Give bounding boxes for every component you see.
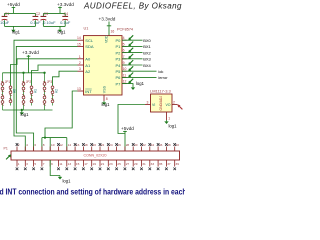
svg-text:A1: A1 [85,63,91,68]
svg-text:5: 5 [123,42,125,46]
svg-text:1: 1 [79,55,81,59]
wire top rail cap group 2 [43,12,65,14]
wire 5V input [118,105,145,152]
svg-text:31: 31 [142,162,146,166]
svg-text:16: 16 [111,30,115,34]
svg-text:+3.3vdd: +3.3vdd [99,16,116,21]
svg-text:3: 3 [26,162,28,166]
junction INT bus [44,137,46,139]
svg-text:P5: P5 [115,69,121,74]
svg-text:38: 38 [167,143,171,147]
svg-text:15: 15 [76,162,80,166]
svg-text:15: 15 [77,42,81,46]
svg-text:13: 13 [68,162,72,166]
pin 13 INT [77,87,92,94]
power flag +3.3vdd (above IC) [99,16,116,35]
net arrow BX1 [122,45,143,47]
pin 6 P2 [115,49,126,56]
svg-text:A0: A0 [85,57,91,62]
pin 1 GND [167,112,171,121]
svg-text:10: 10 [123,67,127,71]
svg-text:VDD: VDD [105,35,109,43]
svg-text:25: 25 [117,162,121,166]
svg-text:37: 37 [167,162,171,166]
svg-text:7: 7 [43,162,45,166]
ground cap group 1 [11,28,15,32]
svg-text:P3: P3 [115,57,121,62]
svg-text:log1: log1 [102,102,111,107]
left edge green arrow [6,155,11,160]
svg-text:INT: INT [85,89,92,94]
svg-text:16: 16 [76,143,80,147]
svg-text:BX0: BX0 [143,38,151,43]
pin 8 VSS [103,85,108,101]
svg-text:A2: A2 [85,69,91,74]
pin 10 P5 wire /ok [115,67,126,74]
no-connect X marks top [16,143,176,146]
svg-text:21: 21 [101,162,105,166]
svg-text:C1: C1 [5,12,10,16]
svg-text:2: 2 [173,101,175,105]
svg-text:P7: P7 [115,81,121,86]
svg-text:LM1117-3.3: LM1117-3.3 [150,89,172,94]
svg-text:29: 29 [134,162,138,166]
svg-text:P1: P1 [4,147,8,151]
svg-text:log1: log1 [12,30,21,35]
svg-text:VSS: VSS [103,85,107,93]
pin 3 VI [145,101,155,108]
svg-text:2: 2 [79,61,81,65]
svg-text:0.1uF: 0.1uF [30,20,41,25]
svg-text:/ok: /ok [158,69,163,74]
jumper JP1 right column [9,86,16,106]
ground header [58,176,62,180]
svg-text:5: 5 [34,162,36,166]
red net arrow at VO [178,105,183,110]
pin 16 VDD [105,30,115,44]
svg-text:BX2: BX2 [143,50,151,55]
pin 4 P0 [115,36,126,43]
net arrow BX3 [122,58,143,60]
svg-text:18: 18 [84,143,88,147]
svg-text:log1: log1 [58,30,67,35]
svg-text:/error: /error [158,75,168,80]
svg-text:BX4: BX4 [143,63,151,68]
wire A1 [32,65,78,86]
pin 14 SCL [77,36,94,43]
ground cap group 2 [58,28,62,32]
ground under IC [102,101,106,105]
svg-text:P1: P1 [115,44,121,49]
svg-text:36: 36 [159,143,163,147]
pin 7 P3 [115,55,126,62]
power flag +3.3vdd (cap group 2) [57,2,74,14]
svg-text:3: 3 [147,101,149,105]
svg-text:JP2: JP2 [26,80,32,84]
jumper JP3 right column [51,86,58,106]
svg-text:log1: log1 [169,124,178,129]
svg-text:P4: P4 [115,63,121,68]
svg-text:log1: log1 [21,112,30,117]
junction dot gnd rail [21,109,23,111]
svg-text:P2: P2 [115,50,121,55]
svg-text:34: 34 [151,143,155,147]
svg-text:32: 32 [142,143,146,147]
svg-text:PCF8574: PCF8574 [117,27,133,31]
junction dot [22,72,24,74]
svg-text:A0: A0 [12,89,16,93]
svg-text:SCL: SCL [85,38,94,43]
pin 12 P7 wire to ground [115,80,126,87]
wire SCL long [14,40,78,151]
svg-text:39: 39 [176,162,180,166]
svg-text:+3.3vdd: +3.3vdd [57,2,74,7]
svg-text:10uF: 10uF [0,20,10,25]
svg-text:BX1: BX1 [143,44,151,49]
pin 2 A1 [78,61,91,68]
capacitor C3 [41,12,49,26]
capacitor C4 [62,12,68,26]
svg-text:0.1uF: 0.1uF [60,20,71,25]
svg-text:7: 7 [123,55,125,59]
svg-text:+5vdd: +5vdd [7,2,20,7]
power flag +5vdd (bottom) [121,126,134,134]
svg-text:11: 11 [123,73,127,77]
svg-text:24: 24 [109,143,113,147]
pin 5 P1 [115,42,126,49]
pin 15 SDA [77,42,94,49]
svg-text:C3: C3 [44,12,49,16]
svg-text:22: 22 [101,143,105,147]
svg-text:14: 14 [68,143,72,147]
pin 1 A0 [78,55,91,62]
IC U1 PCF8574 body [84,36,123,95]
svg-text:1: 1 [168,117,170,121]
svg-text:A1: A1 [33,89,37,93]
svg-text:C4: C4 [64,12,69,16]
svg-text:1: 1 [18,162,20,166]
wire SDA long [16,46,77,151]
wire vdd rail jumpers [3,72,45,74]
net arrow BX2 [122,52,143,54]
svg-text:12: 12 [59,143,63,147]
capacitor C1 [2,12,10,26]
svg-text:JP1: JP1 [5,80,11,84]
svg-text:4: 4 [26,143,28,147]
wire A2 [53,71,78,86]
svg-text:14: 14 [77,36,81,40]
svg-text:log1: log1 [63,179,72,184]
pin numbers top row [18,143,179,147]
svg-text:13: 13 [77,87,81,91]
svg-text:9: 9 [123,61,125,65]
svg-text:9: 9 [51,162,53,166]
connector pins top row [17,147,175,152]
capacitor C2 [33,12,41,26]
svg-text:8: 8 [43,143,45,147]
svg-text:26: 26 [117,143,121,147]
svg-text:P6: P6 [115,75,121,80]
regulator U2 LM1117-3.3 [151,94,173,112]
svg-text:27: 27 [126,162,130,166]
svg-text:11: 11 [59,162,62,166]
svg-text:8: 8 [106,97,108,101]
wire top rail cap group 1 [5,12,36,14]
svg-text:U1: U1 [84,26,89,30]
svg-text:CONN_02X20: CONN_02X20 [84,153,107,157]
wire INT long [45,91,78,138]
junction dot [43,72,45,74]
wire A0 [11,59,78,86]
jumper JP2 right column [30,86,37,106]
svg-text:20: 20 [93,143,97,147]
connector pins bottom row [17,160,175,167]
svg-text:GND/ADJ: GND/ADJ [159,96,163,111]
svg-text:P0: P0 [115,38,121,43]
svg-text:VI: VI [152,103,155,107]
svg-text:+5vdd: +5vdd [121,126,134,131]
power flag +5vdd (cap group 1) [7,2,20,14]
wire gnd pin bottom header [50,160,60,176]
net arrow BX0 [122,39,143,41]
svg-text:+3.3vdd: +3.3vdd [22,50,39,55]
no-connect X marks bottom [16,168,176,171]
connector P1 CONN_02X20 body [11,151,180,160]
svg-text:19: 19 [93,162,97,166]
svg-text:33: 33 [151,162,155,166]
svg-text:6: 6 [34,143,36,147]
ground LM1117 [164,120,168,124]
svg-text:23: 23 [109,162,113,166]
svg-text:AUDIOFEEL, By Oksang: AUDIOFEEL, By Oksang [83,1,182,10]
svg-text:log1: log1 [136,81,145,86]
svg-text:C2: C2 [36,12,41,16]
pin 2 VO [165,101,177,108]
pin numbers bottom row [18,162,179,166]
svg-text:BX3: BX3 [143,57,151,62]
svg-text:JP3: JP3 [47,80,53,84]
svg-text:3: 3 [79,67,81,71]
wire bottom rail cap group 2 [43,26,65,28]
pin 11 P6 wire /error [115,73,126,80]
pin 9 P4 [115,61,126,68]
svg-text:30: 30 [134,143,138,147]
svg-text:SDA: SDA [85,44,94,49]
jumper JP1 left column [1,73,10,110]
svg-text:A2: A2 [54,89,58,93]
svg-text:12: 12 [123,80,127,84]
svg-text:28: 28 [126,143,130,147]
power flag +3.3vdd (address jumpers) [22,50,39,73]
svg-text:40: 40 [176,143,180,147]
svg-text:VO: VO [165,103,170,107]
wire gnd rail jumpers [3,110,53,111]
pin 3 A2 [78,67,91,74]
ground jumpers [20,111,24,115]
jumper JP3 left column [43,73,52,110]
svg-text:d INT connection and setting o: d INT connection and setting of hardware… [0,187,185,196]
svg-text:35: 35 [159,162,163,166]
svg-text:17: 17 [84,162,88,166]
jumper JP2 left column [22,73,31,110]
svg-text:4: 4 [123,36,125,40]
net arrow BX4 [122,64,143,66]
svg-text:,0.10uF: ,0.10uF [42,20,56,25]
wire bottom rail cap group 1 [5,26,36,28]
svg-text:10: 10 [51,143,55,147]
svg-text:6: 6 [123,49,125,53]
